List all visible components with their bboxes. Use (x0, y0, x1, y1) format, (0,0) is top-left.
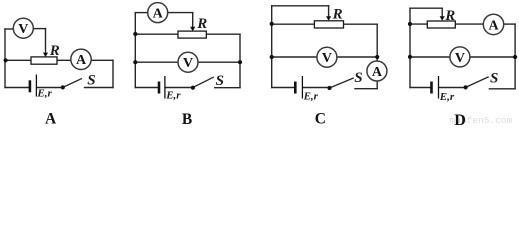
wire: D main wire left segment (410, 23, 427, 25)
wire: B main wire left segment (135, 33, 178, 35)
switch pivot dot (A) (61, 85, 65, 89)
wire: C battery to switch segment (303, 87, 329, 89)
ammeter A (circuit B) (148, 3, 168, 23)
wire: A left vertical (4, 29, 6, 88)
ammeter A (circuit A) (71, 49, 91, 69)
wire: B wiper feed vertical (192, 13, 194, 28)
node dot (D, left junction main wire) (408, 22, 412, 26)
svg-text:R: R (49, 43, 60, 59)
battery E,r (A): short thick plate (29, 80, 32, 92)
switch S blade (B) (193, 77, 213, 87)
wire: B ammeter loop right stub (168, 12, 193, 14)
node dot (B, left junction middle wire) (133, 60, 137, 64)
svg-text:E,r: E,r (165, 89, 181, 101)
ammeter A (circuit D) (483, 14, 503, 34)
wire: D main wire box to ammeter (455, 23, 483, 25)
svg-text:V: V (455, 51, 465, 66)
wire: B bottom right segment (switch fixed contact) (215, 87, 240, 89)
wire: B left vertical (134, 13, 136, 88)
wire: D right vertical (514, 24, 516, 89)
wire: C right vertical upper (376, 24, 378, 61)
switch S blade (D) (466, 77, 489, 87)
voltmeter V (circuit B) (178, 52, 198, 72)
wiper arrowhead (D) (440, 16, 445, 20)
wiper arrowhead (B) (190, 27, 195, 31)
wire: A voltmeter loop left stub (5, 28, 13, 30)
wire: D middle wire left segment (410, 56, 450, 58)
resistor R box (B) (178, 31, 206, 38)
svg-text:V: V (322, 51, 332, 66)
wire: D bottom right segment (switch fixed contact) (489, 88, 515, 90)
wire: A main wire ammeter to right corner (91, 59, 113, 61)
switch S blade (C) (330, 78, 354, 88)
wire: C bypass top horizontal (272, 5, 329, 7)
switch S blade (A) (63, 79, 82, 88)
wire: A main wire box to ammeter (57, 59, 71, 61)
wire: D bottom left segment (410, 87, 430, 89)
switch pivot dot (C) (327, 86, 331, 90)
wiper arrowhead (C) (326, 16, 331, 20)
node dot (C, left junction middle wire) (270, 55, 274, 59)
wire: D left vertical (409, 8, 411, 87)
battery E,r (C): long thin plate (301, 76, 303, 99)
wire: B middle wire left segment (to voltmeter) (135, 61, 178, 63)
voltmeter V (circuit D) (450, 47, 470, 67)
wire: A bottom right segment (switch fixed contact) (85, 87, 114, 89)
wire: A voltmeter loop right stub (33, 28, 45, 30)
wire: D battery to switch segment (439, 87, 465, 89)
node dot (A, left junction) (4, 58, 8, 62)
wire: C middle wire left segment (272, 56, 317, 58)
wire: D middle wire right segment (470, 56, 515, 58)
wire: A wiper feed vertical (45, 29, 47, 54)
battery E,r (D): short thick plate (430, 82, 433, 94)
svg-text:S: S (354, 70, 362, 86)
battery E,r (C): short thick plate (294, 82, 297, 94)
svg-text:A: A (372, 65, 383, 80)
wire: C bottom left segment (272, 87, 295, 89)
wire: B main wire right segment (206, 33, 240, 35)
voltmeter V (circuit A) (13, 18, 33, 38)
wire: C left vertical (271, 6, 273, 88)
svg-text:B: B (182, 111, 192, 125)
wire: C bottom right segment (switch fixed contact) (355, 88, 377, 90)
svg-text:R: R (444, 8, 455, 24)
wire: B ammeter loop left stub (135, 12, 147, 14)
wire: C right vertical lower (ammeter to bottom) (376, 81, 378, 89)
resistor R box (A) (31, 57, 57, 64)
svg-text:E,r: E,r (36, 87, 52, 99)
wire: B right vertical (239, 34, 241, 87)
node dot (D, right junction middle wire) (513, 55, 517, 59)
svg-text:D: D (454, 112, 466, 125)
svg-text:R: R (332, 6, 343, 22)
battery E,r (A): long thin plate (35, 75, 37, 97)
resistor R box (C) (314, 21, 343, 28)
wire: A main wire left segment (5, 59, 31, 61)
svg-text:A: A (45, 110, 57, 125)
wire: C bypass right vertical (wiper feed) (328, 6, 330, 18)
wire: C main wire left segment (272, 23, 315, 25)
wire: A bottom left segment (5, 87, 29, 89)
svg-text:V: V (183, 56, 193, 71)
wire: B bottom left segment (135, 87, 158, 89)
battery E,r (B): long thin plate (164, 76, 166, 99)
wire: D bypass top horizontal (410, 7, 442, 9)
svg-text:S: S (216, 73, 224, 89)
node dot (B, left junction main wire) (133, 32, 137, 36)
svg-text:A: A (153, 7, 164, 22)
wire: D bypass right vertical (wiper feed) (441, 8, 443, 17)
svg-text:V: V (18, 22, 28, 37)
node dot (C, left junction main wire) (270, 22, 274, 26)
svg-text:E,r: E,r (439, 91, 455, 103)
battery E,r (B): short thick plate (158, 82, 161, 94)
wire: D main wire ammeter to right corner (504, 23, 515, 25)
battery E,r (D): long thin plate (438, 76, 440, 99)
svg-text:A: A (76, 53, 87, 68)
voltmeter V (circuit C) (317, 47, 337, 67)
wire: B middle wire right segment (198, 61, 240, 63)
switch pivot dot (B) (191, 86, 195, 90)
svg-text:C: C (315, 110, 326, 125)
svg-text:R: R (196, 16, 207, 32)
wire: A right vertical (112, 60, 114, 87)
svg-text:A: A (488, 18, 499, 33)
svg-text:S: S (490, 70, 498, 86)
switch pivot dot (D) (464, 85, 468, 89)
wiper arrowhead (A) (43, 53, 48, 57)
node dot (C, right junction middle wire) (375, 55, 379, 59)
svg-text:E,r: E,r (303, 91, 319, 103)
wire: B battery to switch segment (166, 87, 193, 89)
wire: C middle wire right segment (337, 56, 377, 58)
node dot (B, right junction middle wire) (238, 60, 242, 64)
wire: C main wire right segment (344, 23, 378, 25)
resistor R box (D) (427, 21, 455, 28)
node dot (D, left junction middle wire) (408, 55, 412, 59)
ammeter A (circuit C) (367, 61, 387, 81)
wire: A battery to switch segment (37, 87, 63, 89)
svg-text:S: S (87, 72, 95, 88)
